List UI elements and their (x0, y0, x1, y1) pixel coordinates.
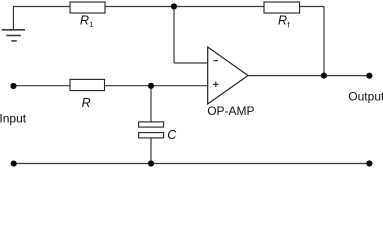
svg-text:R: R (82, 96, 91, 110)
svg-text:C: C (167, 128, 177, 142)
svg-text:Input: Input (0, 111, 27, 125)
svg-text:Rf: Rf (278, 14, 290, 30)
svg-text:OP-AMP: OP-AMP (207, 104, 254, 118)
svg-text:R1: R1 (80, 14, 94, 29)
svg-text:Output: Output (348, 90, 383, 104)
